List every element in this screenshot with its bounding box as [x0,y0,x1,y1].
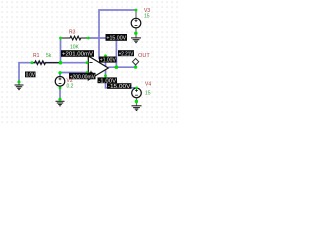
svg-text:+1.00V: +1.00V [100,58,117,64]
node V2 top terminal [58,71,61,74]
node op-amp non-inverting input pin [86,71,89,74]
node V2 ground junction [58,98,61,101]
source V4 [132,88,142,98]
node R1 left terminal [31,61,34,64]
node V3 top terminal [135,9,138,12]
node OUT terminal diamond [133,59,139,65]
wire: V3 stub top [135,10,137,18]
wire: R3 right to feedback corner [88,38,116,67]
probe label +200.00mV [69,73,96,81]
node V4 top terminal [135,87,138,90]
node op-amp V+ supply pin [104,54,107,57]
node V2 bottom terminal [59,87,62,90]
wire: ground to R1 left (horizontal y=62.7) [19,63,88,83]
op-amp U1 [88,56,108,80]
probe label -15.00V [107,83,131,90]
svg-text:R3: R3 [69,29,76,35]
svg-text:R1: R1 [33,53,40,59]
svg-text:15: 15 [144,13,150,19]
svg-text:15: 15 [145,91,151,97]
wire: V3 stub bottom to ground [135,28,137,38]
node A junction (R1/R3/op-amp inverting input) [59,61,63,65]
probe label 1.00V (bottom) [98,77,118,84]
svg-text:0.0V: 0.0V [26,72,36,78]
source V3 [131,18,141,28]
wire: V2 stub up [59,73,61,77]
svg-text:-15.00V: -15.00V [108,84,131,90]
node left ground junction [18,81,21,84]
resistor R3 [61,36,89,40]
node op-amp V- supply pin [104,74,107,77]
probe label +15.00V [106,34,128,42]
node R3 left terminal [59,37,62,40]
probe label +201.00mV [61,50,94,58]
svg-text:10K: 10K [70,44,80,50]
wire: left ground stub [18,82,20,85]
ground (under V4) [132,106,142,111]
probe label +2.21V [118,50,134,57]
wire: V+ rail from V3 to op-amp [99,10,136,66]
svg-text:+200.00mV: +200.00mV [70,74,96,80]
node op-amp inverting input pin [86,61,89,64]
probe label 1.00V (top) [99,57,117,64]
node R3 right terminal [87,37,90,40]
ground (left) [15,85,24,90]
svg-text:+15.00V: +15.00V [106,36,126,42]
probe label 0.0V [25,72,36,79]
svg-text:5k: 5k [46,53,52,59]
wire: V2 node to op-amp plus input [60,72,88,74]
node V3 bottom / ground junction [134,32,137,35]
svg-text:OUT: OUT [138,53,150,59]
wire: op-amp output to OUT [108,65,135,68]
svg-text:+201.00mV: +201.00mV [62,52,94,58]
wire: node A vertical to R3 left [60,38,62,63]
wire: V- rail from V4 to op-amp [106,70,137,88]
ground (under V2) [56,101,65,106]
node feedback/output junction [115,65,119,69]
node OUT terminal connection [134,66,137,69]
wire: V4 stub bottom to ground [136,98,138,106]
wire: V2 bottom to ground [59,86,61,101]
resistor R1 [32,61,61,65]
svg-text:0.2: 0.2 [67,84,74,90]
ground (under V3) [131,38,141,43]
node V4 bottom / ground junction [135,100,138,103]
source V2 [55,77,65,87]
svg-text:+2.21V: +2.21V [119,51,134,57]
svg-text:V4: V4 [145,82,151,88]
